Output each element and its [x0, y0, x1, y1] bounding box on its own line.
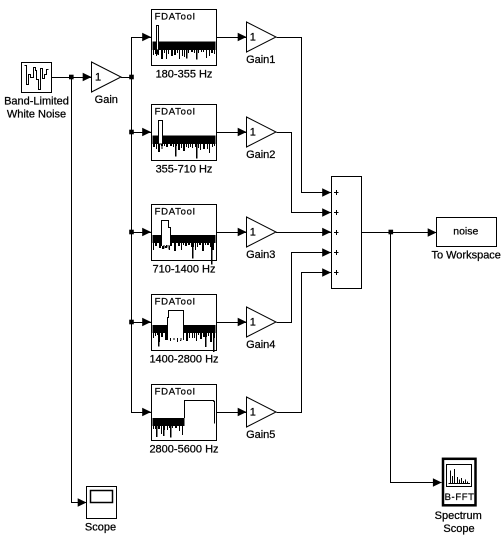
svg-text:FDATool: FDATool — [155, 12, 196, 23]
junction sum output branch — [389, 230, 394, 235]
svg-text:Gain4: Gain4 — [246, 339, 275, 351]
arrowhead Sum input 3 — [322, 228, 331, 237]
svg-text:Gain: Gain — [95, 94, 118, 106]
svg-text:1400-2800 Hz: 1400-2800 Hz — [149, 354, 218, 366]
sum block Sum — [332, 177, 362, 289]
svg-text:Spectrum: Spectrum — [435, 510, 482, 522]
svg-text:Band-Limited: Band-Limited — [4, 95, 69, 107]
branch wire to filter 3 — [131, 232, 151, 234]
arrowhead into Gain2 — [238, 128, 247, 137]
svg-text:Scope: Scope — [85, 522, 116, 534]
arrowhead into Gain5 — [238, 408, 247, 417]
svg-text:Gain1: Gain1 — [246, 54, 275, 66]
wire Gain5 to Sum — [277, 273, 332, 413]
svg-text:noise: noise — [453, 226, 478, 238]
svg-text:White Noise: White Noise — [7, 108, 66, 120]
wire Gain2 to Sum — [277, 133, 332, 213]
gain Gain2 — [247, 117, 277, 147]
junction trunk row 2 — [129, 130, 134, 135]
arrowhead into filter 5 — [142, 408, 151, 417]
arrowhead into Gain3 — [238, 228, 247, 237]
wire source to Scope — [72, 78, 87, 503]
svg-text:B-FFT: B-FFT — [445, 492, 475, 503]
block Scope — [87, 487, 117, 519]
arrowhead into Gain — [83, 73, 92, 82]
gain Gain4 — [247, 307, 277, 337]
wire Sum to To Workspace — [361, 232, 437, 234]
arrowhead Sum input 1 — [322, 188, 331, 197]
spectrum chart frame — [447, 465, 472, 487]
filter block FDATool 1 (180-355 Hz) — [152, 10, 217, 66]
gain Gain1 — [247, 22, 277, 52]
block Band-Limited White Noise — [22, 63, 52, 93]
svg-text:To Workspace: To Workspace — [431, 249, 501, 261]
filter block FDATool 4 (1400-2800 Hz) — [152, 295, 217, 352]
arrowhead into filter 4 — [142, 318, 151, 327]
scope screen — [91, 491, 113, 503]
svg-text:Gain3: Gain3 — [246, 249, 275, 261]
gain Gain5 — [247, 397, 277, 427]
svg-text:Scope: Scope — [443, 523, 474, 535]
junction trunk row 3 — [129, 230, 134, 235]
arrowhead into Spectrum Scope — [433, 478, 442, 487]
block Spectrum Scope — [443, 459, 476, 506]
junction trunk feed — [129, 75, 134, 80]
wire Gain to trunk — [121, 77, 131, 79]
svg-text:1: 1 — [95, 72, 101, 84]
arrowhead into Gain4 — [238, 318, 247, 327]
svg-text:FDATool: FDATool — [155, 297, 196, 308]
svg-text:2800-5600 Hz: 2800-5600 Hz — [149, 444, 218, 456]
gain Gain3 — [247, 217, 277, 247]
wire filter 5 to Gain5 — [216, 412, 247, 414]
arrowhead into filter 1 — [142, 33, 151, 42]
arrowhead Sum input 4 — [322, 248, 331, 257]
wire source to Gain — [52, 77, 92, 79]
svg-text:1: 1 — [250, 317, 256, 329]
branch wire to filter 1 — [131, 37, 151, 39]
branch wire to filter 5 — [131, 412, 151, 414]
wire filter 4 to Gain4 — [216, 322, 247, 324]
wire Gain4 to Sum — [277, 253, 332, 323]
svg-text:FDATool: FDATool — [155, 387, 196, 398]
spectrum bars — [449, 469, 471, 484]
wire filter 2 to Gain2 — [216, 132, 247, 134]
svg-text:Gain5: Gain5 — [246, 429, 275, 441]
filter block FDATool 2 (355-710 Hz) — [152, 105, 217, 161]
gain Gain — [92, 62, 122, 92]
arrowhead into filter 3 — [142, 228, 151, 237]
wire filter 1 to Gain1 — [216, 37, 247, 39]
svg-text:1: 1 — [250, 407, 256, 419]
junction source branch — [69, 75, 74, 80]
svg-text:355-710 Hz: 355-710 Hz — [156, 164, 213, 176]
svg-text:1: 1 — [250, 32, 256, 44]
junction trunk row 4 — [129, 320, 134, 325]
branch wire to filter 4 — [131, 322, 151, 324]
svg-text:710-1400 Hz: 710-1400 Hz — [153, 264, 216, 276]
svg-text:FDATool: FDATool — [155, 207, 196, 218]
wire to Spectrum Scope — [391, 233, 442, 483]
svg-text:Gain2: Gain2 — [246, 149, 275, 161]
arrowhead Sum input 2 — [322, 208, 331, 217]
branch wire to filter 2 — [131, 132, 151, 134]
filter block FDATool 5 (2800-5600 Hz) — [152, 385, 217, 441]
arrowhead into Gain1 — [238, 33, 247, 42]
svg-text:FDATool: FDATool — [155, 107, 196, 118]
svg-text:1: 1 — [250, 127, 256, 139]
svg-text:180-355 Hz: 180-355 Hz — [156, 69, 213, 81]
arrowhead into To Workspace — [428, 228, 437, 237]
arrowhead into filter 2 — [142, 128, 151, 137]
wire Gain1 to Sum — [277, 38, 332, 193]
svg-text:1: 1 — [250, 227, 256, 239]
wire filter 3 to Gain3 — [216, 232, 247, 234]
wire Gain3 to Sum — [276, 232, 331, 234]
filter block FDATool 3 (710-1400 Hz) — [152, 205, 217, 265]
arrowhead Sum input 5 — [322, 268, 331, 277]
trunk wire vertical — [131, 37, 133, 412]
arrowhead into Scope — [78, 498, 87, 507]
block To Workspace (noise) — [437, 218, 497, 247]
